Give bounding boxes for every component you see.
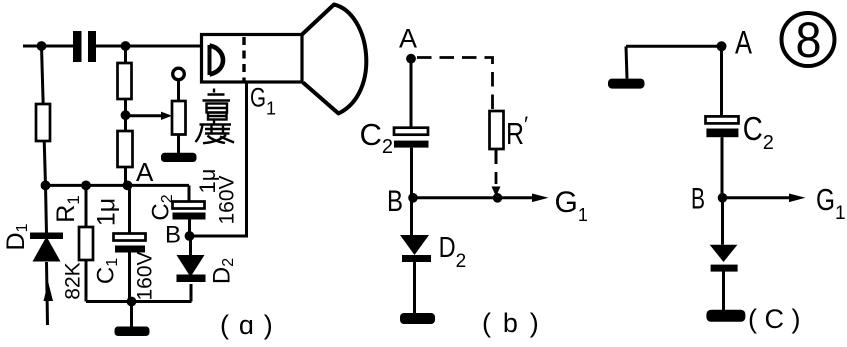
speaker grid dashed line xyxy=(242,37,245,81)
resistor divider lower xyxy=(118,131,133,167)
diode D1 xyxy=(46,185,47,234)
wire B to G1 (c) xyxy=(723,196,791,199)
potentiometer volume xyxy=(173,68,185,80)
ground (b) xyxy=(400,313,435,324)
figure number 8 xyxy=(782,13,835,66)
svg-text:82K: 82K xyxy=(62,262,85,299)
ground top-left (c) xyxy=(608,79,645,89)
diode D2 (b) xyxy=(410,198,413,235)
wire top (c) xyxy=(626,46,722,78)
wire A to C2 (c) xyxy=(720,46,723,116)
node A (c) xyxy=(717,41,727,51)
ground pot xyxy=(161,153,197,162)
node B xyxy=(185,231,195,241)
capacitor C2 (b) xyxy=(394,128,428,135)
wire A to C2 (b) xyxy=(410,59,413,128)
speaker diaphragm arc xyxy=(208,45,212,75)
node B (c) xyxy=(718,193,728,203)
node B (b) xyxy=(408,193,418,203)
resistor R1 xyxy=(85,185,88,301)
node wiper tap xyxy=(121,110,131,120)
svg-text:8: 8 xyxy=(796,12,822,68)
wire B to G1 (b) xyxy=(413,196,533,199)
wire top rail to speaker xyxy=(96,45,202,48)
label yin (volume char 1) xyxy=(203,89,231,120)
svg-text:( ɑ ): ( ɑ ) xyxy=(220,310,274,340)
wire bottom rail xyxy=(86,300,192,303)
node top-mid xyxy=(121,41,131,51)
capacitor C1 xyxy=(128,185,131,301)
label du (volume char 2) xyxy=(196,121,235,144)
wire wiper with arrow xyxy=(126,114,163,117)
node R1 top xyxy=(81,181,91,191)
svg-text:B: B xyxy=(387,185,403,218)
svg-text:1μ: 1μ xyxy=(93,198,121,226)
svg-text:B: B xyxy=(691,183,705,216)
resistor left bias xyxy=(36,104,50,141)
wire speaker to node B xyxy=(194,84,247,237)
svg-text:B: B xyxy=(165,222,181,249)
capacitor C2 xyxy=(188,185,192,236)
ground main xyxy=(130,302,133,328)
svg-text:160V: 160V xyxy=(134,251,157,300)
dashed wire A to R' xyxy=(417,58,493,112)
speaker horn xyxy=(302,5,366,114)
diode (c) xyxy=(721,198,724,245)
svg-text:( b ): ( b ) xyxy=(482,308,541,338)
resistor R' xyxy=(490,111,504,149)
node ground xyxy=(127,297,137,307)
wire top rail left stub xyxy=(23,45,73,48)
svg-text:A: A xyxy=(399,24,417,54)
svg-text:A: A xyxy=(136,157,154,187)
svg-text:A: A xyxy=(735,25,753,61)
capacitor coupling (top) xyxy=(73,31,82,62)
node A xyxy=(123,181,133,191)
node A (b) xyxy=(406,54,416,64)
ground (c) xyxy=(706,310,745,322)
wire node A rail xyxy=(46,184,190,187)
diode D2 (a) xyxy=(189,236,193,302)
capacitor C2 (c) xyxy=(706,116,739,123)
node left rail xyxy=(41,181,51,191)
wire mid branch xyxy=(124,46,127,185)
node top-left xyxy=(37,41,47,51)
resistor divider upper xyxy=(118,63,132,99)
wire left branch xyxy=(42,46,46,185)
svg-text:160V: 160V xyxy=(216,175,239,224)
speaker G1 driver box xyxy=(202,35,303,83)
svg-text:( C ): ( C ) xyxy=(748,304,800,334)
node R' tap xyxy=(493,193,503,203)
input arrow xyxy=(44,282,54,301)
